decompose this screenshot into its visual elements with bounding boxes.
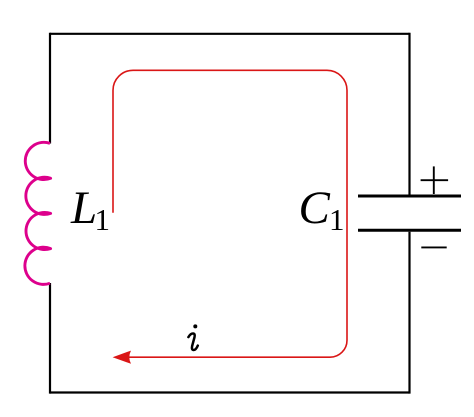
inductor L1 coil (25, 142, 51, 284)
wire left lower (49, 283, 51, 394)
svg-text:1: 1 (329, 202, 345, 237)
red current loop wire (113, 70, 347, 357)
wire right upper (408, 33, 410, 195)
wire left upper (49, 33, 51, 144)
current arrowhead (113, 351, 131, 364)
plus sign (421, 166, 449, 194)
minus sign (421, 246, 446, 248)
wire right lower (408, 232, 410, 394)
capacitor C1 top plate (358, 195, 461, 198)
label i (math italic) (188, 324, 197, 350)
wire top (50, 33, 410, 35)
svg-text:C: C (299, 182, 331, 234)
svg-text:1: 1 (95, 202, 111, 237)
capacitor C1 bottom plate (358, 229, 461, 232)
wire bottom (50, 391, 410, 393)
svg-text:L: L (70, 182, 97, 234)
